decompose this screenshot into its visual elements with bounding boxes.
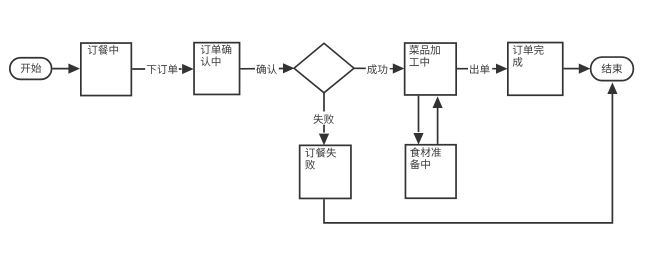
process 菜品加工中: [405, 43, 457, 95]
terminator 开始: [10, 58, 52, 80]
wire 出单 label arrow to 订单完成: [457, 63, 508, 74]
terminator 结束: [591, 57, 634, 81]
wire 下订单 label arrow to 订单确认中: [132, 63, 194, 74]
wire 订餐失败 bottom route to 结束 with arrowhead: [324, 82, 618, 223]
process 订餐中: [81, 43, 132, 96]
process 订餐失败: [300, 145, 351, 198]
wire 食材准备中 up to 菜品加工中 with arrowhead: [433, 96, 443, 143]
process 食材准备中: [405, 145, 456, 199]
process 订单确认中: [194, 43, 240, 95]
wire 成功 label arrow to 菜品加工中: [354, 63, 404, 74]
wire start to 订餐中 with arrowhead: [52, 64, 80, 74]
wire 订单完成 to 结束 with arrowhead: [564, 64, 591, 74]
decision diamond: [294, 43, 354, 93]
wire 确认 label arrow to decision: [240, 63, 294, 74]
wire 失败 label arrow decision to 订餐失败: [312, 93, 336, 145]
process 订单完成: [508, 43, 563, 96]
wire 菜品加工中 down to 食材准备中 with arrowhead: [413, 96, 423, 145]
